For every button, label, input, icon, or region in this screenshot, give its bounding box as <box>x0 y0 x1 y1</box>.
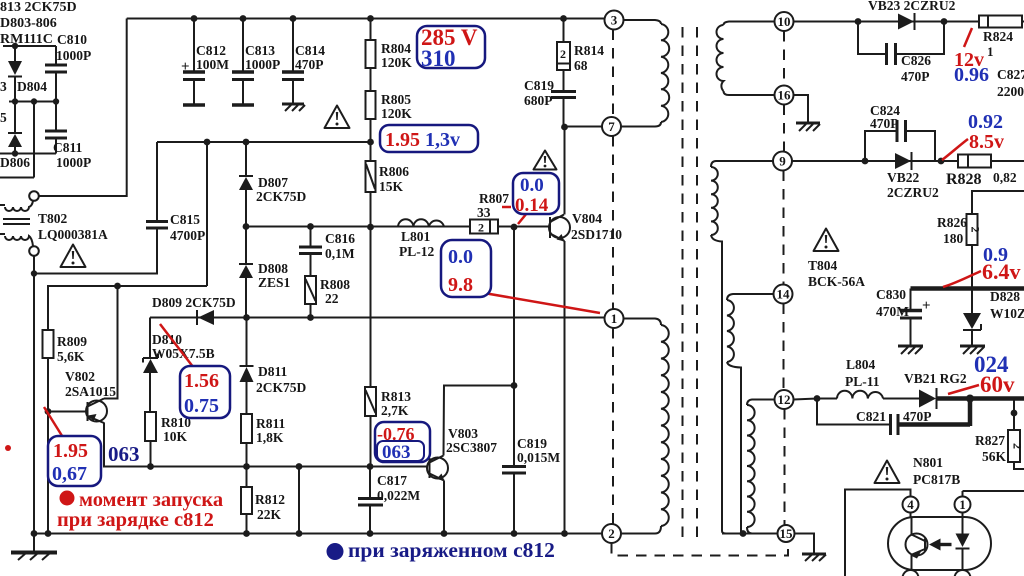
node bridge top <box>12 43 18 49</box>
svg-text:0.92: 0.92 <box>968 111 1003 133</box>
svg-text:1: 1 <box>611 311 618 326</box>
ground bottom left <box>11 534 57 561</box>
svg-text:0,1M: 0,1M <box>325 246 355 261</box>
capacitor C815 <box>146 142 168 228</box>
svg-text:120K: 120K <box>381 55 412 70</box>
wire 12v rail <box>794 21 980 23</box>
dashed pin line 10-16 <box>783 31 785 86</box>
winding secondary 9-bottom <box>711 161 773 534</box>
svg-text:R827: R827 <box>975 433 1005 448</box>
transformer core line left <box>682 27 684 543</box>
capacitor C826 <box>858 22 944 66</box>
svg-text:C827: C827 <box>997 67 1024 82</box>
resistor R826 <box>967 214 983 289</box>
svg-text:15: 15 <box>780 526 794 541</box>
wire bridge mid <box>9 101 56 103</box>
node circle 1 <box>605 309 624 328</box>
svg-text:0.14: 0.14 <box>515 195 549 216</box>
warning triangle T804 <box>814 229 839 252</box>
node circle 2 <box>602 524 621 543</box>
node rail C814 <box>290 15 297 22</box>
wire x514 drop <box>513 227 515 466</box>
wire bridge output riser <box>0 102 34 178</box>
node bridge bottom <box>12 150 18 156</box>
svg-text:10: 10 <box>778 14 791 29</box>
svg-text:2SC3807: 2SC3807 <box>446 440 497 455</box>
dashed pin line 14-12 <box>783 304 785 391</box>
svg-text:0,67: 0,67 <box>52 463 87 485</box>
svg-text:8.5v: 8.5v <box>969 131 1004 153</box>
svg-text:0,015M: 0,015M <box>517 450 560 465</box>
svg-text:4: 4 <box>907 497 914 512</box>
wire bridge bottom <box>0 153 56 155</box>
capacitor C811 <box>45 102 67 154</box>
capacitor C819 680P <box>551 92 576 127</box>
resistor R824 <box>979 16 1024 28</box>
svg-text:1000P: 1000P <box>56 48 91 63</box>
node y226 D808 <box>243 223 250 230</box>
wire 8.5v rail <box>792 160 958 162</box>
diode D804 <box>8 46 22 102</box>
svg-text:W10Z: W10Z <box>990 306 1024 321</box>
red annotation dash V804 <box>502 206 511 209</box>
wire V804 collector <box>564 127 566 215</box>
annotation box 0.0 0.14 <box>513 173 559 216</box>
transistor V802 <box>48 399 107 424</box>
wire R826 top <box>972 191 1024 214</box>
svg-text:0,82: 0,82 <box>993 170 1017 185</box>
svg-text:6.4v: 6.4v <box>982 259 1021 284</box>
annotation box 1.56 0.75 <box>180 366 230 418</box>
svg-text:470P: 470P <box>870 116 899 131</box>
red annotation line 60v <box>948 385 979 394</box>
svg-text:C821: C821 <box>856 409 886 424</box>
svg-text:16: 16 <box>778 88 792 103</box>
node ground stub <box>31 530 38 537</box>
resistor R810 <box>145 412 156 467</box>
wire R809 node to bottom <box>47 412 49 534</box>
resistor R812 <box>241 467 252 534</box>
node y317 D811 <box>243 314 250 321</box>
svg-text:2: 2 <box>1011 443 1024 449</box>
svg-text:1.95: 1.95 <box>385 129 420 151</box>
capacitor C810 <box>45 46 67 102</box>
svg-text:1,3v: 1,3v <box>425 129 460 151</box>
svg-text:R807: R807 <box>479 191 509 206</box>
wire y317 feedback <box>150 317 605 319</box>
transistor V804 <box>549 215 570 242</box>
node circle 12 <box>775 390 794 409</box>
svg-text:2CZRU2: 2CZRU2 <box>887 185 939 200</box>
wire V802 emitter <box>104 423 430 467</box>
svg-text:C815: C815 <box>170 212 200 227</box>
svg-text:L801: L801 <box>401 229 431 244</box>
svg-text:2: 2 <box>560 47 566 61</box>
node circle 7 <box>602 117 621 136</box>
node 60v bold <box>966 395 974 403</box>
svg-text:470P: 470P <box>903 409 932 424</box>
node circle 14 <box>774 285 793 304</box>
svg-text:15K: 15K <box>379 179 404 194</box>
dashed pin line 9-14 <box>783 171 785 285</box>
wire 60v rail <box>794 399 920 400</box>
svg-text:R809: R809 <box>57 334 87 349</box>
diode VB22 <box>895 152 912 170</box>
wire ground bus bottom <box>34 533 603 535</box>
annotation box 285V <box>417 25 485 71</box>
svg-text:56K: 56K <box>982 449 1007 464</box>
capacitor C813 <box>232 19 254 106</box>
resistor R806 fusible <box>366 142 376 227</box>
resistor R828 <box>958 155 1024 168</box>
svg-text:2CK75D: 2CK75D <box>256 189 307 204</box>
annotation box 0.0 9.8 <box>441 240 491 297</box>
node 8.5v a <box>862 158 869 165</box>
svg-text:3: 3 <box>611 13 618 28</box>
svg-text:0.96: 0.96 <box>954 64 989 86</box>
wire mid y226 <box>246 226 550 228</box>
svg-text:C826: C826 <box>901 53 931 68</box>
svg-text:7: 7 <box>608 119 615 134</box>
svg-text:C816: C816 <box>325 231 355 246</box>
svg-text:5,6K: 5,6K <box>57 349 85 364</box>
svg-text:R808: R808 <box>320 277 350 292</box>
svg-text:68: 68 <box>574 58 588 73</box>
blue annotation dot charged <box>327 543 344 560</box>
svg-text:D828: D828 <box>990 289 1020 304</box>
svg-text:1: 1 <box>987 44 994 59</box>
wire x299 drop <box>298 467 300 534</box>
svg-text:V804: V804 <box>572 211 602 226</box>
diode D808 <box>239 227 253 317</box>
node emitter wire x299 <box>296 463 303 470</box>
annotation box 1.95 0,67 <box>48 436 101 486</box>
svg-text:100M: 100M <box>196 57 229 72</box>
dashed pin line 1-2 <box>612 328 614 524</box>
ground node16 <box>796 123 820 131</box>
resistor R813 fusible <box>365 227 376 467</box>
svg-text:680P: 680P <box>524 93 553 108</box>
node bridge mid b <box>31 98 37 104</box>
wire y286 <box>48 286 207 330</box>
warning triangle C814 <box>325 106 350 129</box>
svg-text:0.0: 0.0 <box>448 246 473 268</box>
svg-text:9: 9 <box>779 154 786 169</box>
svg-text:10K: 10K <box>163 429 188 444</box>
node circle 15 <box>778 525 795 542</box>
node bottom right bus <box>740 530 747 537</box>
svg-text:120K: 120K <box>381 106 412 121</box>
resistor R814 <box>557 19 570 91</box>
svg-text:470P: 470P <box>295 57 324 72</box>
node 12v b <box>941 18 948 25</box>
node y226 R807out <box>511 224 518 231</box>
svg-text:22: 22 <box>325 291 339 306</box>
wire V803 collector <box>444 386 515 456</box>
svg-text:12: 12 <box>778 392 791 407</box>
winding secondary 10-16 <box>717 22 775 96</box>
svg-text:470P: 470P <box>901 69 930 84</box>
svg-text:813 2CK75D: 813 2CK75D <box>0 0 77 15</box>
wire node15 ground <box>795 534 815 554</box>
node y226 R806 <box>367 224 374 231</box>
node y317 R808 <box>307 314 314 321</box>
capacitor C819 0,015M <box>502 467 526 534</box>
node circle 9 <box>773 152 792 171</box>
diode D807 <box>239 142 253 227</box>
inductor L804 <box>837 391 883 399</box>
capacitor C814 <box>282 19 304 104</box>
capacitor C824 <box>865 120 935 161</box>
red annotation line V802 <box>44 407 69 447</box>
inductor L801 <box>398 219 444 227</box>
svg-text:2: 2 <box>969 227 983 233</box>
red annotation dot start <box>60 491 75 506</box>
dashed shield line bottom <box>612 543 789 556</box>
node circle 10 <box>775 12 794 31</box>
svg-text:VB23 2CZRU2: VB23 2CZRU2 <box>868 0 956 13</box>
svg-text:063: 063 <box>382 442 411 463</box>
svg-text:R826: R826 <box>937 215 967 230</box>
svg-text:1.56: 1.56 <box>184 370 219 392</box>
node 8.5v b <box>938 158 945 165</box>
svg-text:C810: C810 <box>57 32 87 47</box>
wire x207 riser <box>206 142 208 286</box>
svg-text:C812: C812 <box>196 43 226 58</box>
svg-text:R824: R824 <box>983 29 1013 44</box>
wire node16 ground <box>794 95 809 122</box>
svg-text:2SA1015: 2SA1015 <box>65 384 116 399</box>
wire T802 lower to left rail <box>33 256 35 534</box>
diode D806 <box>8 102 22 154</box>
wire V802 collector <box>104 286 118 399</box>
svg-text:2SD1710: 2SD1710 <box>571 227 622 242</box>
node R812 bottom <box>243 530 250 537</box>
wire V803 emitter <box>443 481 445 534</box>
svg-text:BCK-56A: BCK-56A <box>808 274 865 289</box>
svg-text:D808: D808 <box>258 261 288 276</box>
svg-text:PL-12: PL-12 <box>399 244 434 259</box>
svg-text:V802: V802 <box>65 369 95 384</box>
svg-text:LQ000381A: LQ000381A <box>38 227 108 242</box>
node y142 x370 <box>367 139 374 146</box>
svg-text:+: + <box>922 298 931 314</box>
svg-text:1.95: 1.95 <box>53 440 88 462</box>
red annotation line 6.4v <box>943 271 981 287</box>
svg-text:2CK75D: 2CK75D <box>256 380 307 395</box>
resistor R811 <box>241 414 252 467</box>
node x514 bottom <box>511 530 518 537</box>
transformer T802 <box>0 191 39 256</box>
svg-text:9.8: 9.8 <box>448 274 473 296</box>
svg-text:VB21 RG2: VB21 RG2 <box>904 371 967 386</box>
svg-text:момент запуска: момент запуска <box>79 489 223 511</box>
node emitter wire R811 <box>243 463 250 470</box>
red annotation line D810 <box>160 324 197 372</box>
wire 6.4v bold rail <box>911 286 1024 291</box>
wire opto pin1 <box>963 491 1024 497</box>
node y286 V802 collector <box>114 283 121 290</box>
resistor R808 fusible <box>305 276 316 318</box>
node rail C813 <box>240 15 247 22</box>
red annotation line V804 node <box>518 213 527 224</box>
node circle 3 <box>605 11 624 30</box>
svg-text:180: 180 <box>943 231 964 246</box>
node R809 bottom <box>45 530 52 537</box>
ground node15 <box>802 554 826 561</box>
svg-text:D807: D807 <box>258 175 288 190</box>
svg-text:1: 1 <box>959 497 966 512</box>
svg-text:R812: R812 <box>255 492 285 507</box>
svg-text:при зарядке с812: при зарядке с812 <box>57 509 214 531</box>
svg-text:310: 310 <box>421 46 456 71</box>
svg-text:3: 3 <box>0 79 7 94</box>
wire V804 emitter <box>564 241 566 534</box>
svg-text:+: + <box>181 59 190 75</box>
diode VB23 <box>898 13 915 30</box>
warning triangle N801 <box>875 461 900 484</box>
warning triangle T802 <box>61 245 86 268</box>
annotation box 1.95 1,3v <box>380 125 478 152</box>
svg-text:33: 33 <box>477 205 491 220</box>
diode D828 zener <box>963 289 981 346</box>
dashed pin line 12-15 <box>784 409 786 525</box>
svg-text:C819: C819 <box>517 436 547 451</box>
node C817 bottom <box>367 530 374 537</box>
diode VB21 <box>919 388 937 409</box>
node V803 emitter <box>441 530 448 537</box>
node rail R804 <box>367 15 374 22</box>
dashed pin line 3-7 <box>612 30 614 118</box>
winding primary bottom 1-2 <box>622 319 669 534</box>
node emitter wire R813 <box>367 463 374 470</box>
node V803 collector <box>511 382 518 389</box>
svg-text:V803: V803 <box>448 426 478 441</box>
wire mid rail y142 <box>157 141 371 143</box>
wire opto pin4 <box>845 490 911 576</box>
diode D809 <box>197 310 214 325</box>
svg-text:D804: D804 <box>17 79 47 94</box>
svg-text:1000P: 1000P <box>245 57 280 72</box>
capacitor C812 <box>181 19 205 106</box>
wire node7 to collector <box>564 126 603 128</box>
svg-text:R814: R814 <box>574 43 604 58</box>
svg-text:C817: C817 <box>377 473 407 488</box>
winding primary top 3-7 <box>622 20 670 127</box>
wire left rail riser <box>39 19 127 197</box>
ground C830 <box>898 346 923 354</box>
svg-text:60v: 60v <box>980 372 1015 397</box>
svg-text:N801: N801 <box>913 455 943 470</box>
node circle 16 <box>775 86 794 105</box>
capacitor C816 <box>299 227 322 277</box>
node rail R814 <box>560 15 567 22</box>
svg-text:R806: R806 <box>379 164 409 179</box>
wire top rail <box>127 18 605 20</box>
optocoupler N801 <box>888 497 991 576</box>
resistor R809 <box>43 330 54 412</box>
svg-text:L804: L804 <box>846 357 876 372</box>
svg-text:T804: T804 <box>808 258 838 273</box>
svg-text:T802: T802 <box>38 211 68 226</box>
svg-text:063: 063 <box>108 442 140 466</box>
node 12v a <box>855 18 862 25</box>
svg-text:ZES1: ZES1 <box>258 275 291 290</box>
red annotation line 12v <box>964 28 972 47</box>
wire bottom right bus <box>722 533 778 535</box>
svg-text:C814: C814 <box>295 43 325 58</box>
svg-text:0.0: 0.0 <box>520 175 544 196</box>
svg-text:1,8K: 1,8K <box>256 430 284 445</box>
node y226 C816 <box>307 223 314 230</box>
winding secondary 12-15 <box>747 400 775 534</box>
svg-text:D803-806: D803-806 <box>0 16 57 31</box>
svg-text:R813: R813 <box>381 389 411 404</box>
svg-text:2200M: 2200M <box>997 84 1024 99</box>
svg-text:R804: R804 <box>381 41 411 56</box>
diode D811 <box>240 318 254 415</box>
wire 60v bold <box>937 396 1024 401</box>
resistor R805 <box>366 91 376 142</box>
svg-text:D806: D806 <box>0 155 30 170</box>
wire to C815 bottom <box>34 229 157 274</box>
svg-text:C811: C811 <box>53 140 83 155</box>
winding secondary 14-down <box>727 294 774 534</box>
transistor V803 <box>427 456 448 482</box>
diode D810 zener <box>143 318 158 413</box>
resistor R827 <box>1008 399 1024 470</box>
svg-text:2: 2 <box>608 526 615 541</box>
svg-text:при заряженном с812: при заряженном с812 <box>348 538 555 562</box>
svg-text:R811: R811 <box>256 416 286 431</box>
svg-text:5: 5 <box>0 110 7 125</box>
red annotation dot left edge <box>5 445 11 451</box>
ground D828 <box>960 346 985 354</box>
svg-text:RM111C: RM111C <box>0 32 53 47</box>
svg-text:R828: R828 <box>946 171 982 188</box>
node bridge mid c <box>53 98 59 104</box>
svg-text:C813: C813 <box>245 43 275 58</box>
resistor R804 <box>366 19 376 92</box>
node T802 wire <box>31 270 37 276</box>
dashed pin line 7-1 <box>612 136 614 309</box>
svg-text:D811: D811 <box>258 364 288 379</box>
node y142 x246 <box>243 139 250 146</box>
capacitor C817 <box>358 467 383 534</box>
svg-text:R805: R805 <box>381 92 411 107</box>
svg-text:470M: 470M <box>876 304 909 319</box>
transformer core line right <box>696 27 698 543</box>
svg-text:C819: C819 <box>524 78 554 93</box>
red annotation line to node1 <box>455 288 600 313</box>
svg-text:1000P: 1000P <box>56 155 91 170</box>
node x299 bottom <box>296 530 303 537</box>
dashed pin line 16-9 <box>783 105 785 152</box>
node 60v C821 <box>814 395 821 402</box>
node y142 x207 <box>204 139 211 146</box>
svg-text:22K: 22K <box>257 507 282 522</box>
svg-text:14: 14 <box>777 287 791 302</box>
svg-text:D809 2CK75D: D809 2CK75D <box>152 295 236 310</box>
svg-text:4700P: 4700P <box>170 228 205 243</box>
node V802 base <box>45 408 52 415</box>
svg-text:0.75: 0.75 <box>184 395 219 417</box>
wire bridge top <box>3 45 56 47</box>
ground C814 <box>282 104 305 111</box>
red annotation line 8.5v <box>942 139 968 160</box>
svg-text:0,022M: 0,022M <box>377 488 420 503</box>
svg-text:PC817B: PC817B <box>913 472 960 487</box>
